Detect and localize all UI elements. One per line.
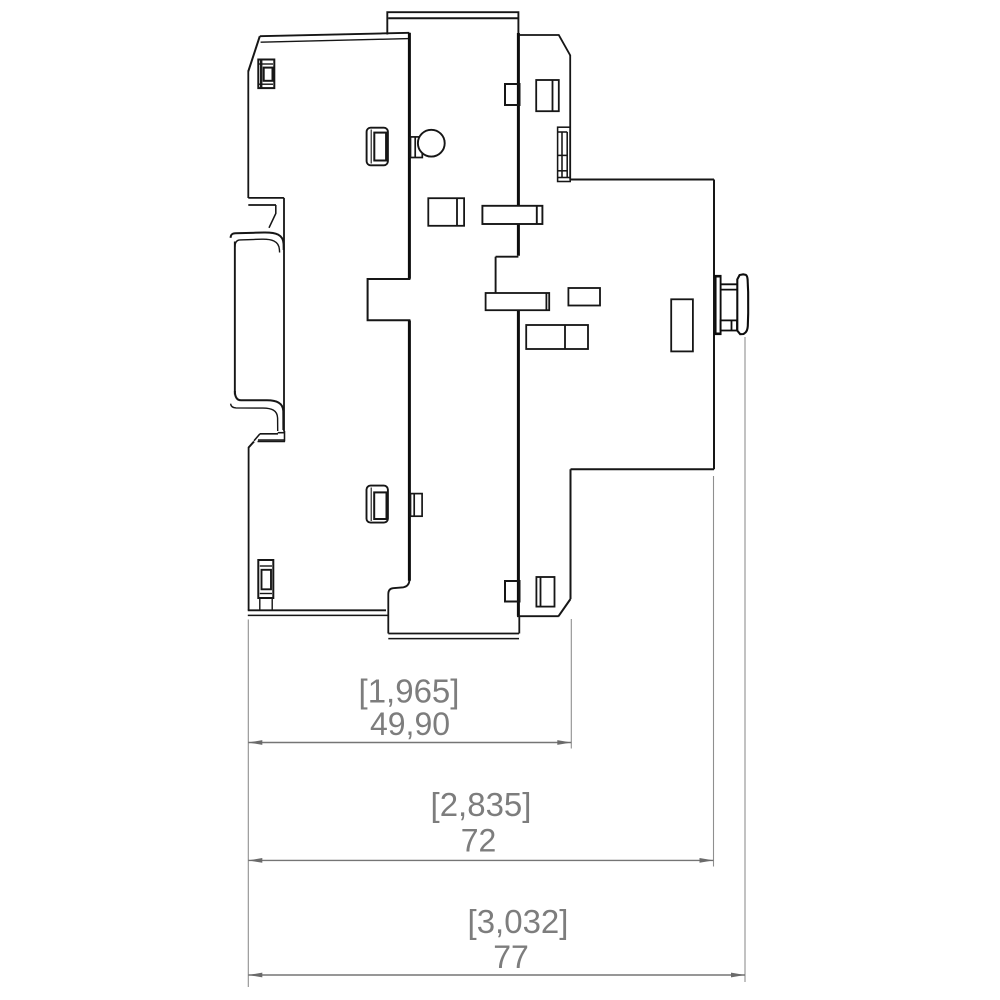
extension line 77 right xyxy=(744,337,746,982)
center panel rounded slot upper xyxy=(367,128,388,166)
extension line left xyxy=(247,620,249,988)
left body right thick edge lower xyxy=(408,321,411,581)
center panel rounded slot lower xyxy=(367,486,388,523)
button cap xyxy=(737,274,748,334)
lower bracket tab xyxy=(411,494,423,517)
button mounting plate xyxy=(714,276,722,334)
svg-text:72: 72 xyxy=(461,823,497,859)
DIN clip spine xyxy=(234,242,236,395)
crossing bar 2 xyxy=(486,293,550,310)
top-left latch block xyxy=(258,60,274,89)
circle knob xyxy=(418,130,445,157)
circle bracket tab xyxy=(411,137,423,158)
left body top edge (double line) xyxy=(260,33,410,42)
narrow strip latch detail xyxy=(558,127,571,181)
DIN clip foot xyxy=(254,431,285,442)
right body bottom edge of wide block xyxy=(571,468,715,470)
DIN rail slot top lines xyxy=(248,198,284,205)
DIN clip top arm outer curve xyxy=(231,232,284,250)
left body bottom edge (double line) xyxy=(248,610,388,615)
bottom-left latch block xyxy=(258,560,273,610)
right body bottom edge xyxy=(517,615,559,617)
dimension line 72 xyxy=(248,859,713,861)
center panel bottom edge (double line) xyxy=(388,634,519,639)
top cap outline xyxy=(387,12,518,35)
center panel step notch xyxy=(496,257,519,293)
center panel right thick edge upper xyxy=(517,33,520,256)
svg-text:[3,032]: [3,032] xyxy=(468,903,569,940)
DIN clip top arm inner curve xyxy=(235,239,280,252)
DIN clip bottom arm outer curve xyxy=(231,404,278,431)
divided rect xyxy=(526,325,588,349)
left body lower-left chamfer xyxy=(249,442,254,448)
DIN rail slot inner lip xyxy=(269,205,276,228)
svg-text:77: 77 xyxy=(493,939,529,975)
left body bottom-right notch xyxy=(388,581,409,634)
top tab on right body xyxy=(505,84,520,105)
center panel inner rect xyxy=(428,198,464,226)
extension line 49.90 right xyxy=(570,619,572,749)
button stem upper xyxy=(721,284,737,289)
DIN rail slot back wall xyxy=(283,198,285,432)
left body top-left chamfer xyxy=(248,36,259,71)
left body left edge upper segment xyxy=(247,71,249,198)
bottom latch rect on right body xyxy=(536,577,554,607)
crossing bar 1 xyxy=(482,206,542,224)
svg-text:49,90: 49,90 xyxy=(370,706,450,742)
left body right thick edge upper xyxy=(408,33,411,279)
right body lower right edge xyxy=(570,469,572,599)
center panel right thick edge lower xyxy=(517,310,520,616)
right body right edge main xyxy=(713,180,715,470)
dimension line 77 xyxy=(248,974,745,976)
right body step top edge xyxy=(570,179,714,181)
svg-text:[1,965]: [1,965] xyxy=(359,673,460,710)
small vent rect xyxy=(568,288,600,306)
extension line 72 right xyxy=(713,476,715,867)
dimension line 49.90 xyxy=(248,742,571,744)
tall rect xyxy=(671,299,693,351)
right body bottom chamfer xyxy=(559,599,571,616)
bottom tab on right body xyxy=(505,581,520,602)
button stem lower block xyxy=(721,320,737,330)
left body edge notch xyxy=(368,279,411,320)
svg-text:[2,835]: [2,835] xyxy=(431,786,532,823)
right body right edge upper xyxy=(569,55,571,180)
left body left edge lower segment xyxy=(248,447,250,611)
DIN clip bottom arm inner curve xyxy=(235,391,284,430)
top latch rect on right body xyxy=(536,80,559,111)
center-right bottom connector xyxy=(518,616,520,633)
right body top edge xyxy=(520,35,571,55)
